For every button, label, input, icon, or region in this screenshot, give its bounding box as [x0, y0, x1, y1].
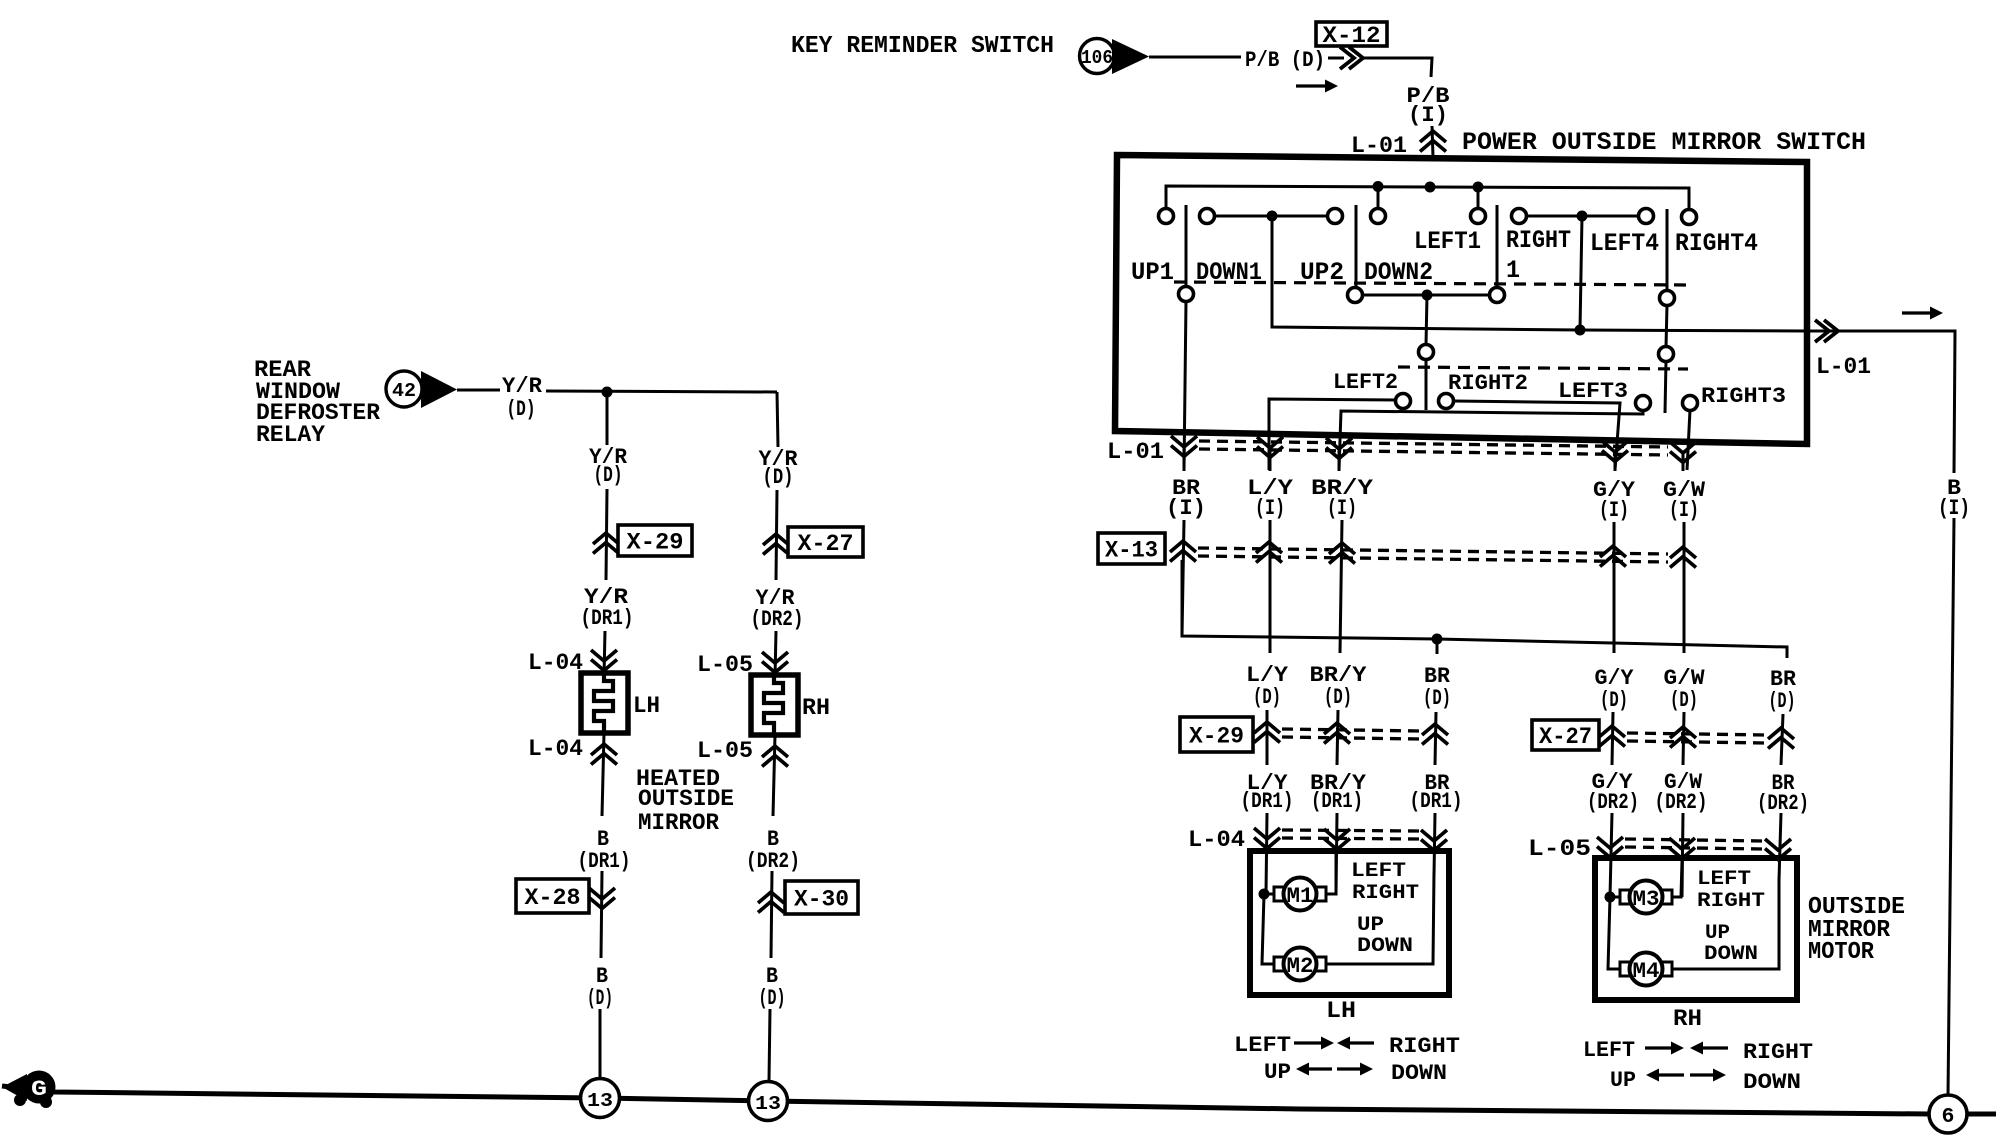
svg-text:RIGHT3: RIGHT3 [1701, 384, 1786, 409]
wire DOWN1-UP2 [1214, 215, 1328, 218]
svg-text:RIGHT: RIGHT [1389, 1034, 1460, 1059]
feed arrow triangle [1112, 39, 1149, 74]
wire RIGHT3 output [1687, 410, 1690, 470]
output wire to right border [1580, 330, 1807, 331]
connector chevron X-28 [589, 888, 615, 909]
terminal LEFT4 [1639, 209, 1654, 224]
contact circle RIGHT2 [1439, 394, 1454, 409]
junction dot DOWN1-UP2 [1267, 211, 1278, 222]
junction dot Y/R branch [602, 387, 613, 398]
svg-text:LEFT: LEFT [1234, 1033, 1291, 1058]
svg-text:X-29: X-29 [627, 530, 684, 556]
junction dot bus right [1473, 182, 1484, 193]
junction dot bus feed [1425, 182, 1436, 193]
contact circle LEFT2 [1396, 394, 1411, 409]
dashed link X-13 row [1198, 548, 1668, 554]
svg-text:RELAY: RELAY [256, 422, 325, 448]
connector chevron X-13 L/Y [1256, 542, 1282, 563]
svg-text:X-27: X-27 [798, 531, 854, 557]
wire BR through X-27 [1781, 714, 1783, 765]
stub to LEFT1 contact [1477, 187, 1480, 209]
pole arm LEFT1/RIGHT1 [1496, 205, 1499, 288]
connector circle 106 [1080, 39, 1115, 74]
ground connector circle 6 [1929, 1095, 1967, 1133]
connector chevron L-04 left [591, 650, 617, 671]
connector chevron X-29 BR [1422, 724, 1448, 745]
wire M3 to G/W [1672, 861, 1682, 897]
wire L/Y through X-13 [1269, 520, 1272, 653]
terminal DOWN1 [1200, 209, 1215, 224]
svg-text:LEFT: LEFT [1697, 868, 1751, 891]
svg-text:13: 13 [587, 1090, 613, 1112]
svg-text:LEFT: LEFT [1351, 860, 1406, 883]
wire from 106 to P/B (D) [1149, 56, 1241, 59]
svg-text:MIRROR: MIRROR [638, 810, 719, 836]
connector chevron L-05 left [762, 652, 788, 673]
dashed link L-04 row [1282, 830, 1419, 831]
connector chevron L-04 BR/Y [1324, 829, 1350, 850]
svg-text:(DR2): (DR2) [751, 607, 804, 632]
svg-text:RIGHT2: RIGHT2 [1448, 371, 1528, 396]
contact circle pole4 lower [1659, 347, 1674, 362]
connector box X-29 [1180, 717, 1253, 752]
connector chevron L-05 G/W [1669, 838, 1695, 859]
wire G/W into RH motor [1682, 813, 1683, 897]
switch supply bus wire [1166, 186, 1689, 217]
connector box X-27 [1532, 720, 1599, 750]
stub to DOWN2 contact [1377, 186, 1380, 209]
svg-text:(D): (D) [1600, 688, 1628, 713]
pole4 wire down [1666, 305, 1667, 347]
mechanical link dashed row 1 [1174, 282, 1691, 285]
connector chevron X-30 [758, 892, 784, 913]
junction dot M3 feed [1605, 892, 1616, 903]
svg-text:RH: RH [1673, 1006, 1702, 1032]
svg-text:(D): (D) [594, 463, 623, 488]
connector box X-28 [516, 879, 589, 913]
connector chevron L-01 right [1815, 320, 1838, 342]
svg-text:L-04: L-04 [528, 650, 583, 676]
wire into RH heater [775, 631, 776, 678]
connector chevron L-01 BR/Y [1326, 438, 1352, 459]
pole2 tip [1425, 359, 1428, 410]
wire dot to M3 [1610, 896, 1622, 899]
wire dot to M1 [1264, 893, 1276, 896]
wire LEFT2 output [1269, 399, 1396, 470]
junction dot lower pair [1422, 290, 1433, 301]
svg-text:X-13: X-13 [1105, 538, 1158, 564]
wire pair2 junction down [1580, 216, 1582, 330]
wire G/Y through X-27 [1612, 712, 1613, 765]
svg-text:(DR1): (DR1) [1410, 789, 1463, 814]
wire G/W through X-27 [1683, 712, 1684, 765]
motor M3 [1620, 890, 1630, 904]
wire B (I) down right side [1948, 518, 1954, 1096]
wire M2 to BR [1326, 872, 1434, 964]
pole2 wire down [1426, 295, 1427, 345]
svg-text:(I): (I) [1599, 498, 1629, 523]
svg-text:M3: M3 [1633, 887, 1660, 912]
direction arrow right [1902, 311, 1933, 314]
wire BR/Y into LH motor [1336, 813, 1337, 894]
svg-text:RIGHT: RIGHT [1352, 882, 1419, 905]
stub BR down [1436, 639, 1439, 654]
svg-text:(D): (D) [1423, 686, 1451, 711]
wire B D to ground 13 right [769, 1009, 770, 1081]
svg-text:UP: UP [1705, 922, 1730, 945]
connector chevron L-01 G/W [1670, 442, 1696, 463]
svg-text:(D): (D) [1769, 689, 1796, 714]
contact circle pair lower-left [1348, 288, 1363, 303]
terminal LEFT1 [1471, 209, 1486, 224]
connector chevron L-04 below [591, 744, 617, 765]
svg-text:(I): (I) [1255, 496, 1285, 521]
connector chevron X-13 G/Y [1600, 546, 1626, 567]
wire into LH heater [604, 631, 605, 676]
svg-text:1: 1 [1506, 256, 1520, 285]
terminal UP2 [1328, 209, 1343, 224]
svg-text:LEFT: LEFT [1583, 1038, 1635, 1063]
connector chevron L-04 L/Y [1254, 828, 1280, 849]
svg-text:(D): (D) [1670, 688, 1698, 713]
connector chevron X-27 G/W [1670, 727, 1696, 748]
heated mirror element RH [751, 675, 798, 735]
connector chevron X-13 BR/Y [1329, 543, 1355, 564]
connector chevron L-01 top [1420, 131, 1446, 152]
connector chevron L-05 G/Y [1597, 837, 1623, 858]
dashed link L-05 row [1625, 839, 1763, 841]
motor M2 [1274, 957, 1284, 971]
connector box X-13 [1098, 533, 1165, 564]
heated mirror element LH [581, 673, 628, 733]
connector chevron L-05 BR [1765, 839, 1791, 860]
svg-text:P/B (D): P/B (D) [1245, 48, 1325, 73]
collector wire BR to outputs [1182, 560, 1787, 658]
ground bus wire [2, 1086, 1929, 1114]
connector chevron X-27 G/Y [1599, 726, 1625, 747]
svg-text:(DR2): (DR2) [1587, 790, 1639, 815]
junction dot RIGHT1-LEFT4 [1577, 211, 1588, 222]
junction dot collector BR [1432, 634, 1443, 645]
power outside mirror switch box [1115, 155, 1807, 444]
junction dot M1 feed [1259, 889, 1270, 900]
connector chevron L-05 below [762, 746, 788, 767]
connector chevron X-29 L/Y [1254, 722, 1280, 743]
dashed link L-01 row [1199, 441, 1668, 447]
wire L/Y through X-29 [1266, 710, 1269, 765]
svg-text:X-29: X-29 [1189, 724, 1244, 750]
wire stubs below L-01 row [1183, 447, 1186, 471]
svg-text:(I): (I) [1327, 496, 1357, 521]
wire BR through X-29 [1435, 712, 1436, 765]
wire B DR1 to X-28 [601, 871, 602, 958]
contact circle pole2 lower [1419, 345, 1434, 360]
connector chevron X-27 BR [1768, 728, 1794, 749]
connector box X-30 [785, 881, 858, 914]
connector chevron L-01 BR [1171, 436, 1197, 457]
terminal DOWN2 [1371, 209, 1386, 224]
svg-text:13: 13 [755, 1093, 781, 1115]
connector chevron X-13 G/W [1670, 547, 1696, 568]
svg-text:(D): (D) [507, 397, 536, 422]
svg-text:L-05: L-05 [697, 652, 753, 678]
wire lower pair [1362, 294, 1490, 297]
svg-text:X-28: X-28 [525, 885, 581, 911]
svg-text:(D): (D) [587, 986, 613, 1011]
svg-text:LEFT2: LEFT2 [1333, 370, 1398, 395]
wire BR through X-13 [1182, 520, 1184, 636]
connector chevron X-29 BR/Y [1324, 723, 1350, 744]
outside mirror motor box RH [1595, 858, 1797, 1000]
connector chevron X-29 left [593, 533, 619, 554]
svg-text:DOWN: DOWN [1391, 1061, 1447, 1086]
branch wire down left [606, 392, 609, 445]
svg-text:(DR1): (DR1) [1311, 789, 1363, 814]
wire B D to ground 13 left [599, 1009, 602, 1078]
svg-text:(I): (I) [1938, 496, 1970, 521]
pole arm UP1/DOWN1 [1185, 205, 1188, 287]
svg-text:M2: M2 [1287, 954, 1314, 979]
contact circle pole1 [1179, 287, 1194, 302]
wire 42 to Y/R [457, 389, 500, 392]
ground connector circle 13 left [581, 1079, 620, 1118]
svg-text:LH: LH [633, 693, 660, 719]
svg-text:DOWN: DOWN [1357, 935, 1413, 958]
wire RIGHT2 output [1454, 401, 1620, 470]
contact circle RIGHT3 [1683, 396, 1698, 411]
wire M1 to BR/Y [1326, 854, 1336, 894]
terminal UP1 [1159, 209, 1174, 224]
feed arrow triangle left [421, 371, 457, 408]
pole4 tip [1665, 361, 1666, 413]
svg-text:L-04: L-04 [528, 736, 583, 762]
svg-text:X-12: X-12 [1323, 23, 1381, 49]
wire BR/Y through X-29 [1337, 710, 1338, 765]
wire down from DOWN1 pair to output [1272, 216, 1580, 330]
svg-text:42: 42 [392, 380, 416, 402]
mechanical link dashed row 2 [1398, 367, 1688, 369]
svg-text:L-04: L-04 [1188, 827, 1245, 853]
wire into X-12 connector [1328, 57, 1344, 60]
dashed link X-27 row [1627, 733, 1766, 735]
svg-text:UP: UP [1264, 1060, 1291, 1085]
svg-text:MOTOR: MOTOR [1808, 939, 1875, 966]
wire L/Y into LH motor [1266, 813, 1267, 894]
wire M1 feed down to M2 [1262, 894, 1276, 964]
outside mirror motor box LH [1250, 851, 1449, 995]
connector box X-12 [1316, 22, 1387, 46]
direction arrow [1296, 84, 1328, 87]
svg-text:(I): (I) [1669, 498, 1699, 523]
contact circle pair lower-right [1490, 288, 1505, 303]
terminal RIGHT4 [1682, 210, 1697, 225]
wire pole1 down to L-01 [1184, 301, 1186, 470]
svg-text:L-01: L-01 [1107, 439, 1164, 465]
wire below RH heater [773, 735, 775, 816]
junction dot bus left [1373, 181, 1384, 192]
connector chevron L-04 BR [1421, 830, 1447, 851]
wire BR into RH motor [1779, 813, 1781, 880]
svg-text:(DR2): (DR2) [746, 849, 800, 874]
wire B DR2 to X-30 [771, 871, 772, 958]
terminal RIGHT1 [1512, 209, 1527, 224]
pole arm UP2/DOWN2 [1355, 205, 1358, 288]
svg-text:UP1: UP1 [1131, 258, 1174, 287]
svg-text:LEFT1: LEFT1 [1414, 227, 1481, 256]
svg-text:RIGHT: RIGHT [1697, 890, 1765, 913]
svg-text:(I): (I) [1408, 103, 1448, 128]
svg-text:RIGHT: RIGHT [1743, 1040, 1813, 1065]
svg-text:G: G [31, 1077, 47, 1102]
svg-text:X-30: X-30 [794, 887, 849, 913]
svg-text:M1: M1 [1287, 884, 1314, 909]
svg-text:6: 6 [1942, 1106, 1955, 1129]
ground symbol G [2, 1074, 27, 1101]
wire right branch to X-27 [776, 490, 777, 580]
svg-text:UP: UP [1610, 1068, 1636, 1093]
svg-text:(DR1): (DR1) [578, 849, 631, 874]
contact circle pole4 upper [1660, 291, 1675, 306]
svg-text:L-05: L-05 [697, 738, 753, 764]
svg-text:(DR1): (DR1) [1241, 789, 1294, 814]
svg-text:KEY REMINDER SWITCH: KEY REMINDER SWITCH [791, 33, 1054, 60]
svg-text:LH: LH [1326, 998, 1356, 1024]
svg-text:RIGHT: RIGHT [1506, 226, 1571, 255]
svg-text:POWER OUTSIDE MIRROR SWITCH: POWER OUTSIDE MIRROR SWITCH [1462, 128, 1866, 157]
wire M4 to BR [1672, 878, 1779, 969]
wire left branch to X-29 [606, 489, 607, 580]
svg-text:LEFT3: LEFT3 [1558, 379, 1628, 404]
svg-text:(DR2): (DR2) [1655, 790, 1708, 815]
svg-text:DOWN: DOWN [1743, 1070, 1801, 1095]
pole arm LEFT4/RIGHT4 [1666, 209, 1669, 291]
connector box X-29 left [618, 525, 692, 556]
wire G/Y into RH motor [1610, 813, 1612, 897]
svg-text:(D): (D) [763, 465, 794, 490]
contact circle LEFT3 [1636, 396, 1651, 411]
wire LEFT3 output [1339, 410, 1643, 470]
connector chevron L-01 G/Y [1602, 441, 1628, 462]
motor M1 [1274, 887, 1284, 901]
svg-text:M4: M4 [1633, 959, 1660, 984]
svg-text:RH: RH [802, 695, 830, 721]
svg-text:UP: UP [1357, 914, 1384, 937]
connector chevron X-13 BR [1170, 541, 1196, 562]
svg-text:Y/R: Y/R [502, 374, 543, 399]
wire BR into LH motor [1434, 813, 1435, 875]
connector chevron X-12 [1340, 47, 1363, 69]
switch output wire L-01 to right [1807, 331, 1955, 473]
ground connector circle 13 right [749, 1082, 788, 1121]
wire P/B into switch [1432, 126, 1433, 157]
svg-text:RIGHT4: RIGHT4 [1675, 229, 1758, 258]
wire below LH heater [602, 733, 604, 816]
svg-text:(DR1): (DR1) [581, 606, 634, 631]
connector box X-27 left [788, 527, 863, 557]
svg-text:(D): (D) [1324, 685, 1352, 710]
connector chevron L-01 L/Y [1257, 437, 1283, 458]
svg-text:DOWN: DOWN [1704, 943, 1758, 966]
wire BR/Y through X-13 [1340, 520, 1342, 653]
junction dot output [1575, 325, 1586, 336]
svg-text:LEFT4: LEFT4 [1590, 229, 1659, 258]
wire G/W through X-13 [1683, 522, 1686, 653]
svg-text:(I): (I) [1166, 496, 1206, 521]
svg-text:L-05: L-05 [1528, 836, 1591, 862]
wire Y/R to branch [546, 391, 777, 392]
dashed link X-29 row [1282, 729, 1420, 731]
connector chevron X-27 left [763, 534, 789, 555]
svg-text:(D): (D) [1253, 685, 1281, 710]
branch wire down right [777, 392, 778, 447]
motor M4 [1620, 962, 1630, 976]
wire M3 feed down to M4 [1608, 897, 1622, 969]
svg-text:106: 106 [1081, 47, 1113, 69]
svg-text:L-01: L-01 [1816, 354, 1871, 380]
wire RIGHT1-LEFT4 [1526, 215, 1639, 218]
svg-text:(DR2): (DR2) [1757, 791, 1809, 816]
svg-text:OUTSIDE: OUTSIDE [638, 786, 734, 812]
wire from X-12 chevron to corner [1363, 58, 1432, 77]
svg-text:(D): (D) [759, 986, 786, 1011]
svg-text:X-27: X-27 [1539, 724, 1592, 750]
connector circle 42 [386, 371, 422, 407]
wire G/Y through X-13 [1613, 522, 1616, 653]
